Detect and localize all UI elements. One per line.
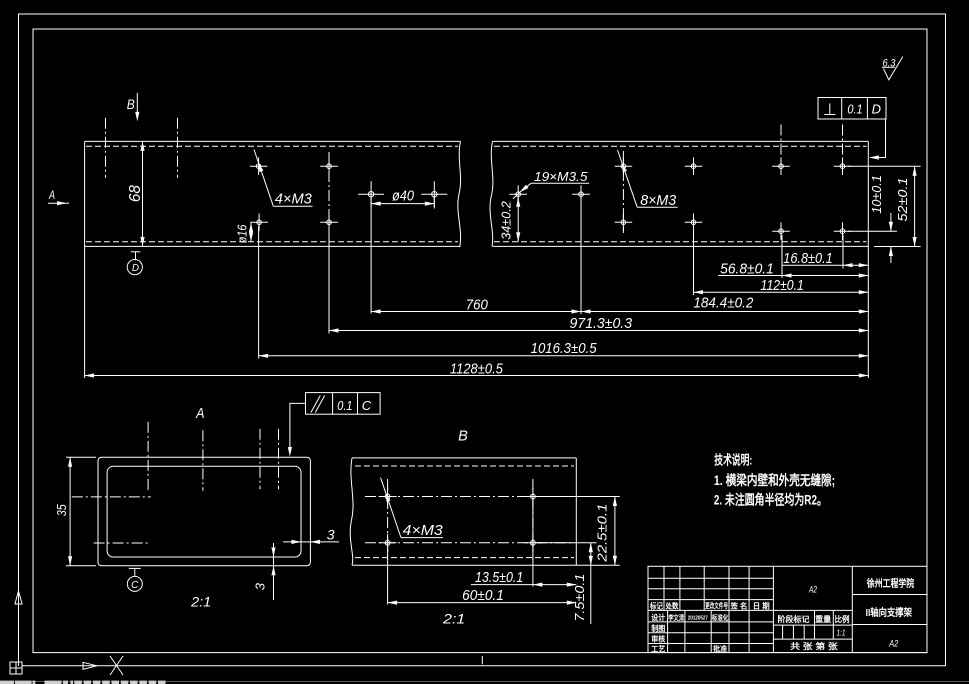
svg-text:ø40: ø40	[392, 189, 414, 205]
section A-A inner profile	[107, 466, 301, 557]
svg-text:B: B	[458, 429, 468, 445]
svg-text:184.4±0.2: 184.4±0.2	[693, 296, 753, 312]
svg-text:共 张 第 张: 共 张 第 张	[790, 641, 839, 651]
svg-text:1016.3±0.5: 1016.3±0.5	[531, 341, 598, 357]
svg-text:处数: 处数	[665, 601, 679, 611]
dimension 1128+-0.5	[85, 361, 869, 377]
svg-text:1128±0.5: 1128±0.5	[450, 361, 504, 377]
dimension 3 wall right	[283, 527, 339, 545]
centerline top-left pair	[106, 118, 178, 178]
dimension 760 and 184.4+-0.2	[371, 296, 868, 314]
svg-text:8×M3: 8×M3	[640, 193, 676, 209]
svg-text:A: A	[195, 405, 204, 422]
title block small texts	[649, 601, 849, 654]
section A-A centerlines	[72, 422, 279, 543]
dimension 971.3+-0.3	[329, 316, 868, 333]
svg-text:68: 68	[127, 185, 144, 202]
right side extension lines	[848, 166, 921, 246]
svg-text:比例: 比例	[835, 614, 850, 624]
dimension 13.5+-0.1	[471, 570, 576, 587]
svg-text:重量: 重量	[815, 614, 831, 624]
dimension 16.8+-0.1	[782, 251, 868, 267]
view B holes 4xM3	[379, 488, 542, 552]
svg-text:A2: A2	[888, 638, 898, 649]
svg-text:2:1: 2:1	[190, 594, 211, 610]
svg-text:工艺: 工艺	[651, 643, 665, 653]
svg-text:3: 3	[327, 527, 335, 543]
section arrow label B	[127, 93, 140, 122]
holes 8xM3 right segment	[615, 125, 852, 241]
svg-text:设计: 设计	[651, 612, 665, 622]
svg-text:60±0.1: 60±0.1	[462, 588, 504, 604]
label 4xM3 with leader	[254, 150, 313, 208]
datum D symbol	[127, 252, 142, 275]
svg-text:D: D	[872, 102, 881, 117]
svg-text:批准: 批准	[713, 643, 727, 653]
svg-text:971.3±0.3: 971.3±0.3	[570, 316, 633, 332]
extension lines below beam	[85, 198, 869, 378]
dimension 56.8+-0.1	[718, 261, 868, 277]
svg-text:A2: A2	[808, 584, 817, 595]
label 8xM3 with leader	[618, 150, 678, 209]
svg-text:A: A	[48, 190, 55, 202]
svg-text:ø16: ø16	[234, 224, 249, 243]
label 19xM3.5 with leader	[513, 170, 589, 199]
UCS origin box	[10, 662, 22, 674]
center tick bottom	[481, 656, 483, 664]
svg-text:20120527: 20120527	[688, 615, 708, 621]
svg-text:56.8±0.1: 56.8±0.1	[720, 261, 774, 277]
section arrow label A	[48, 190, 69, 205]
datum C symbol	[127, 568, 142, 591]
svg-text:1. 横梁内壁和外壳无缝隙;: 1. 横梁内壁和外壳无缝隙;	[714, 472, 835, 488]
X axis line with arrow	[22, 662, 946, 669]
svg-text:16.8±0.1: 16.8±0.1	[783, 251, 833, 267]
svg-text:6.3: 6.3	[883, 57, 897, 69]
view B outline	[350, 458, 620, 565]
svg-text:3: 3	[253, 582, 268, 590]
svg-text:4×M3: 4×M3	[403, 523, 443, 539]
dimension 7.5+-0.1	[572, 543, 593, 624]
dimension o40	[371, 189, 434, 314]
dimension 112+-0.1	[694, 278, 869, 294]
svg-text:C: C	[362, 398, 372, 413]
title block frame	[648, 566, 927, 652]
dimension 68	[127, 141, 145, 246]
dimension 3 wall bottom	[253, 543, 276, 600]
technical notes text	[714, 452, 835, 507]
svg-text:制图: 制图	[651, 623, 665, 633]
perpendicularity tolerance frame 0.1 D	[818, 98, 886, 160]
svg-text:李文清: 李文清	[667, 613, 684, 622]
dimension 10+-0.1	[869, 175, 893, 263]
svg-text:C: C	[131, 580, 139, 591]
svg-text:D: D	[132, 263, 139, 274]
svg-text:52±0.1: 52±0.1	[895, 178, 910, 222]
svg-text:19×M3.5: 19×M3.5	[534, 170, 588, 184]
svg-text:标准化: 标准化	[711, 613, 728, 622]
svg-text:审核: 审核	[651, 634, 665, 644]
svg-text:34±0.2: 34±0.2	[499, 201, 514, 240]
svg-text:0.1: 0.1	[847, 102, 862, 117]
svg-text:徐州工程学院: 徐州工程学院	[866, 577, 914, 590]
main view beam right segment outline	[490, 141, 868, 246]
svg-text:7.5±0.1: 7.5±0.1	[572, 574, 587, 622]
holes 19xM3.5 row	[509, 185, 589, 203]
view B extension lines	[388, 497, 620, 605]
svg-text:35: 35	[55, 504, 69, 516]
svg-text:13.5±0.1: 13.5±0.1	[475, 570, 523, 586]
svg-text:B: B	[127, 96, 135, 112]
X glyph	[110, 656, 123, 675]
svg-text:2. 未注圆角半径均为R2。: 2. 未注圆角半径均为R2。	[714, 492, 827, 508]
label 4xM3 view B	[381, 478, 443, 540]
svg-text:阶段标记: 阶段标记	[778, 614, 810, 624]
svg-text:技术说明:: 技术说明:	[714, 452, 752, 467]
svg-text:4×M3: 4×M3	[275, 192, 312, 208]
dimension o16	[234, 223, 253, 244]
dimension 1016.3+-0.5	[259, 341, 869, 358]
svg-text:760: 760	[466, 298, 488, 314]
section A-A outer profile	[98, 457, 310, 566]
svg-text:签 名: 签 名	[730, 601, 748, 611]
main view beam left segment outline	[85, 141, 461, 246]
hole pair o40	[358, 181, 447, 207]
svg-text:2:1: 2:1	[442, 611, 465, 627]
svg-text:标记: 标记	[649, 601, 663, 611]
dimension 34+-0.2	[499, 197, 521, 242]
dimension 35	[55, 457, 96, 566]
view B centerlines	[365, 479, 574, 560]
svg-text:更改文件号: 更改文件号	[705, 601, 728, 610]
dimension 52+-0.1	[895, 166, 916, 246]
surface finish symbol 6.3	[882, 57, 903, 80]
svg-text:1:1: 1:1	[837, 628, 846, 638]
svg-text:日 期: 日 期	[753, 601, 770, 611]
svg-text:22.5±0.1: 22.5±0.1	[594, 504, 609, 563]
Y axis line with arrow	[15, 591, 22, 662]
bottom strip artifacts	[0, 681, 969, 684]
svg-text:II轴向支撑架: II轴向支撑架	[866, 606, 912, 619]
dimension 60+-0.1	[388, 588, 577, 605]
parallelism tolerance frame 0.1 C	[288, 393, 380, 457]
svg-text:0.1: 0.1	[337, 398, 352, 413]
dimension 22.5+-0.1	[594, 497, 617, 566]
hole group 4xM3 left segment	[250, 152, 338, 236]
svg-text:10±0.1: 10±0.1	[869, 175, 884, 214]
svg-text:112±0.1: 112±0.1	[761, 278, 804, 294]
